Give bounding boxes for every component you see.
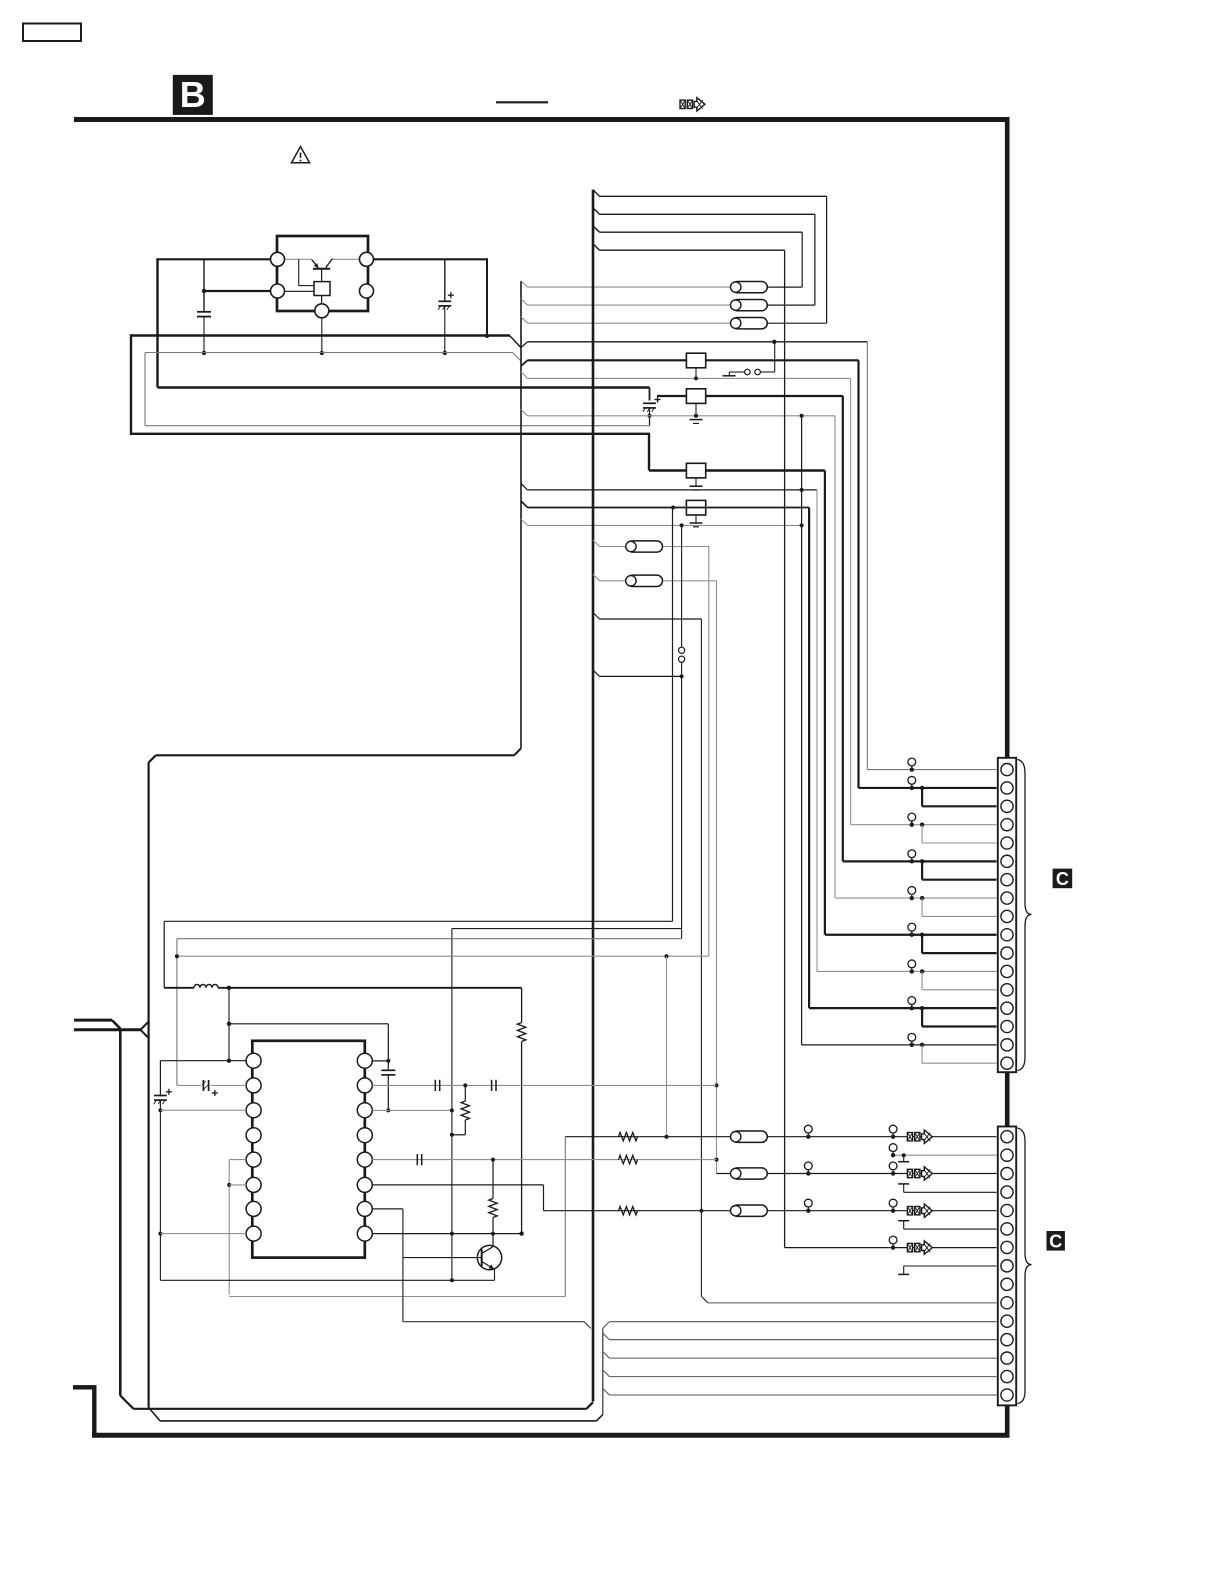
IC pin3L wire bbox=[160, 1109, 246, 1111]
IC pin3R wire bbox=[372, 1109, 452, 1111]
IC pin2L wire with series electrolytic bbox=[177, 1084, 201, 1086]
IC pin1R stub bbox=[372, 1060, 389, 1062]
step wire bbox=[921, 898, 923, 916]
svg-text:B: B bbox=[180, 74, 206, 115]
emitter return line y=1280.3 bbox=[160, 1279, 494, 1281]
filter box F2 on y=396 bbox=[686, 389, 705, 404]
connector P2 rows 10-15 bbox=[708, 1302, 997, 1304]
section label C (lower) bbox=[1047, 1231, 1065, 1251]
connector P1 pin 1 bbox=[1001, 764, 1013, 776]
inner rail left edge x=145 bbox=[144, 353, 146, 426]
wire: module right pin to right drop bbox=[374, 258, 488, 260]
IC U1 left pin 2 bbox=[246, 1078, 261, 1093]
filter box F1 on y=360.3 bbox=[686, 353, 705, 368]
branch tick row y=1376.6 bbox=[603, 1370, 610, 1377]
jumper link / connector pair at (752,372) bbox=[774, 342, 776, 372]
bus tick cyl5 bbox=[593, 574, 600, 581]
drop x=160.4 with electrolytic cap bbox=[159, 1061, 161, 1095]
connector P1 pin 8 bbox=[1001, 892, 1013, 904]
wire y=250.2 bbox=[600, 249, 785, 251]
IC U1 left pin 6 bbox=[246, 1177, 261, 1192]
return line y=928.6 bbox=[452, 928, 682, 930]
IC pin2R signal wire bbox=[372, 1084, 716, 1086]
drop x=521.6 with resistor bbox=[521, 988, 523, 1023]
board arrow (row5) bbox=[907, 1204, 932, 1217]
drop x=850.6 to connector row bbox=[850, 378, 852, 824]
connector P2 pin 2 bbox=[1001, 1149, 1013, 1161]
bus branch tick y=232.2 bbox=[593, 226, 600, 233]
connector P1 row pin 6 bbox=[843, 860, 997, 862]
connector P2 pin 13 bbox=[1001, 1352, 1013, 1364]
junction to jumper link bbox=[772, 340, 776, 344]
drop x=842.8 to connector row bbox=[842, 396, 844, 861]
connector P1 pin 14 bbox=[1001, 1002, 1013, 1014]
connector P1 pin 3 bbox=[1001, 800, 1013, 812]
main bus x=593 bbox=[592, 190, 595, 1402]
IC U1 left pin 1 bbox=[246, 1053, 261, 1068]
bus branch tick y=415.8 bbox=[521, 409, 528, 416]
drop x=716.5 bbox=[716, 581, 718, 1174]
IC pin5L wire bbox=[229, 1159, 246, 1161]
connector P1 pin 7 bbox=[1001, 874, 1013, 886]
drop x=465.3 with resistor bbox=[464, 1085, 466, 1101]
section label C (upper) bbox=[1053, 869, 1073, 889]
wire y=489.9 bbox=[528, 489, 818, 491]
inductor L1 bbox=[164, 987, 194, 989]
connector P2 pin 5 bbox=[1001, 1204, 1013, 1216]
page frame: bottom border bbox=[92, 1433, 1010, 1438]
IC U1 body bbox=[252, 1041, 364, 1258]
connector P2 row 4 bbox=[904, 1191, 997, 1193]
section label B bbox=[173, 75, 213, 115]
IC U1 left pin 3 bbox=[246, 1103, 261, 1118]
wire B from left edge bbox=[74, 1028, 141, 1031]
wire y=232.2 bbox=[600, 231, 803, 233]
connector P1 pin 6 bbox=[1001, 855, 1013, 867]
wire y=396 (thick) bbox=[657, 395, 843, 397]
wire y=525.4 bbox=[528, 524, 802, 526]
IC pin6R wire bbox=[372, 1184, 543, 1186]
module internal wiring bbox=[285, 258, 312, 260]
drop x=867.4 to connector row bbox=[866, 342, 868, 770]
connector P2 pin 3 bbox=[1001, 1168, 1013, 1180]
junction on pin8 wire bbox=[519, 1231, 523, 1235]
bus branch tick y=378.4 bbox=[521, 372, 528, 379]
test point bbox=[908, 776, 916, 790]
bus tick cyl4 bbox=[593, 540, 600, 547]
rail y=387.5 (thick) to drop x=649.5 bbox=[158, 386, 650, 388]
series cap bbox=[435, 1080, 439, 1091]
cylinder right wires and hook columns bbox=[768, 286, 802, 288]
IC pin5R signal wire bbox=[372, 1159, 716, 1161]
wire y=305.1 bbox=[528, 304, 733, 306]
transistor Q1 bbox=[477, 1245, 501, 1269]
drop x=681.6 with jumper pair bbox=[681, 525, 683, 647]
connector P1 pin 16 bbox=[1001, 1039, 1013, 1051]
connector P1 pin 5 bbox=[1001, 837, 1013, 849]
long drop x=784.6 to connector row bbox=[784, 250, 786, 1247]
board arrow (row3) bbox=[907, 1167, 932, 1180]
jumper cylinder (row3) bbox=[731, 1168, 768, 1179]
junction on rail bbox=[443, 351, 447, 355]
IC U1 left pin 5 bbox=[246, 1152, 261, 1167]
resistor R (row5) bbox=[619, 1207, 638, 1215]
page frame: top border bbox=[74, 117, 1010, 122]
rail y=352.5 chicane through bus to 360.3 bbox=[145, 352, 513, 354]
control block inside module bbox=[314, 282, 330, 296]
jumper cylinder JW2 bbox=[731, 299, 768, 310]
wire y=1023.8 bbox=[229, 1023, 388, 1025]
wire: left drop x=157.5 bbox=[156, 258, 158, 387]
merge into bus bbox=[584, 1322, 591, 1329]
connector P1 pin 9 bbox=[1001, 910, 1013, 922]
connector P1 row pin 4 bbox=[851, 824, 997, 826]
drop x=824.9 to connector row bbox=[824, 471, 826, 935]
svg-text:C: C bbox=[1049, 1231, 1062, 1251]
IC U1 left pin 8 bbox=[246, 1226, 261, 1241]
connector P1 pin 15 bbox=[1001, 1020, 1013, 1032]
connector P2 row 8 bbox=[904, 1265, 997, 1267]
brace for connector P1 bbox=[1018, 760, 1032, 1071]
wire: module lower-left pin bbox=[204, 290, 271, 292]
test point bbox=[908, 758, 916, 772]
bottom rail y=1408.8 bbox=[134, 1408, 587, 1410]
drop x=229 bbox=[228, 988, 230, 1061]
transistor collector line x=493 with resistor bbox=[492, 1160, 494, 1199]
junction bbox=[227, 986, 231, 990]
left trunk x=148.6 bbox=[148, 763, 150, 1408]
electrolytic cap on drop x=649.5 bbox=[655, 397, 661, 403]
branch tick row y=1358.1 bbox=[603, 1352, 610, 1359]
bus branch tick y=287.1 bbox=[521, 281, 528, 288]
resistor R (x=521.6) bbox=[517, 1023, 525, 1042]
test point bbox=[908, 960, 916, 974]
gray line y=956.2 bbox=[177, 955, 709, 957]
IC U1 right pin 3 bbox=[357, 1103, 372, 1118]
series cap bbox=[492, 1080, 496, 1091]
connector P1 pin 2 bbox=[1001, 782, 1013, 794]
IC pin8L wire bbox=[160, 1233, 246, 1235]
module bottom pin wire bbox=[321, 318, 323, 353]
rail y=433.8 (thick) jog down at x=649 bbox=[131, 433, 649, 435]
connector P2 row 7 bbox=[785, 1247, 997, 1249]
filter box F4 on y=507.5 bbox=[686, 500, 705, 515]
gray return y=1296.5 bbox=[229, 1296, 565, 1298]
wire: module left pin to left rail bbox=[158, 258, 271, 260]
wire y=360.3 (thick) bbox=[528, 359, 859, 361]
row to pin 16/17 from drop x=801.6 bbox=[801, 416, 803, 1045]
resistor R (x=465.3) bbox=[461, 1101, 469, 1120]
bus return rail y=755.3 bbox=[156, 754, 515, 756]
IC U1 left pin 7 bbox=[246, 1201, 261, 1216]
bottom rail y=1420.9 bbox=[160, 1420, 597, 1422]
series cap bbox=[417, 1154, 421, 1165]
connector P2 row 1 bbox=[565, 1136, 996, 1138]
connector P1 row pin 1 bbox=[867, 769, 996, 771]
electrolytic cap to gnd (right of module) bbox=[444, 259, 446, 301]
connector P2 pin 14 bbox=[1001, 1370, 1013, 1382]
IC pin6L wire bbox=[229, 1184, 246, 1186]
page frame: right border bbox=[1005, 117, 1010, 1435]
drop x=229.2 bbox=[228, 1160, 230, 1295]
wire A from left edge bbox=[74, 1019, 112, 1022]
transistor inside module bbox=[313, 268, 330, 270]
connector P2 pin 10 bbox=[1001, 1297, 1013, 1309]
wire y=214.3 bbox=[600, 213, 815, 215]
drop x=708.8 bbox=[708, 547, 710, 957]
wire y=415.8 bbox=[528, 415, 836, 417]
IC U1 right pin 4 bbox=[357, 1128, 372, 1143]
resistor R (row1) bbox=[619, 1133, 638, 1141]
resistor R (x=493) bbox=[489, 1199, 497, 1218]
connector P2 pin 7 bbox=[1001, 1241, 1013, 1253]
IC U1 right pin 1 bbox=[357, 1053, 372, 1068]
drop x=666.5 bbox=[666, 956, 668, 1136]
capacitor C (left of module) bbox=[203, 259, 205, 311]
IC U1 left pin 4 bbox=[246, 1128, 261, 1143]
connector P1 pin 13 bbox=[1001, 984, 1013, 996]
off-page arrow icon (top) bbox=[680, 98, 705, 111]
drop x=809.1 to connector row bbox=[808, 508, 810, 1009]
svg-text:C: C bbox=[1056, 869, 1069, 889]
jumper cylinder JW1 bbox=[731, 281, 768, 292]
bus branch tick y=507.5 bbox=[521, 501, 528, 508]
connector P2 pin 15 bbox=[1001, 1389, 1013, 1401]
bus tick y=619 bbox=[593, 613, 600, 620]
resistor R (pin5 row) bbox=[619, 1155, 638, 1163]
wire y=378.4 bbox=[528, 377, 851, 379]
bus tick y=676.4 bbox=[593, 670, 600, 677]
IC U1 right pin 8 bbox=[357, 1226, 372, 1241]
connector P1 pin 12 bbox=[1001, 965, 1013, 977]
bus branch tick y=214.3 bbox=[593, 208, 600, 215]
IC U1 right pin 7 bbox=[357, 1201, 372, 1216]
warning triangle bbox=[292, 147, 310, 163]
drop x=701.4 bbox=[700, 619, 702, 1296]
connector P2 pin 9 bbox=[1001, 1278, 1013, 1290]
filter box F3 on y=470.5 bbox=[686, 463, 705, 478]
test point bbox=[908, 813, 916, 827]
step wire bbox=[921, 788, 923, 806]
brace for connector P2 bbox=[1018, 1128, 1032, 1404]
connector P2 row 2 bbox=[893, 1154, 996, 1156]
connector P2 pin 6 bbox=[1001, 1223, 1013, 1235]
connector P1 row pin 12 bbox=[817, 970, 997, 972]
jumper cylinder JW5 bbox=[626, 575, 663, 586]
wire y=196.3 bbox=[600, 195, 827, 197]
capacitor plates bbox=[381, 1069, 395, 1071]
jumper cylinder (row1) bbox=[731, 1131, 768, 1142]
connector P1 pin 4 bbox=[1001, 819, 1013, 831]
wire y=507.5 bbox=[528, 507, 810, 509]
step wire bbox=[921, 861, 923, 879]
test point bbox=[908, 887, 916, 901]
bus branch tick y=525.4 bbox=[521, 519, 528, 526]
IC pin8R wire bbox=[372, 1233, 521, 1235]
return line y=921.3 bbox=[164, 920, 672, 922]
wire y=341.8 to column bbox=[528, 341, 868, 343]
branch tick row y=1395.0 bbox=[603, 1388, 610, 1395]
connector P1 row pin 2 bbox=[859, 787, 997, 789]
drop x=835.0 to connector row bbox=[834, 416, 836, 898]
connector P2 pin 4 bbox=[1001, 1186, 1013, 1198]
connector P1 row pin 10 bbox=[825, 934, 997, 936]
connector P1 pin 17 bbox=[1001, 1057, 1013, 1069]
label box top-left bbox=[23, 24, 81, 42]
return line y=938.7 bbox=[177, 938, 682, 940]
drop x=858.5 to connector row bbox=[857, 360, 859, 788]
test point bbox=[908, 850, 916, 864]
board arrow (row1) bbox=[907, 1130, 932, 1143]
connector P2 pin 12 bbox=[1001, 1334, 1013, 1346]
connector P2 pin 1 bbox=[1001, 1131, 1013, 1143]
IC U1 right pin 6 bbox=[357, 1177, 372, 1192]
step wire bbox=[921, 971, 923, 989]
connector P2 pin 8 bbox=[1001, 1260, 1013, 1272]
junction bbox=[202, 289, 206, 293]
connector P2 pin 11 bbox=[1001, 1315, 1013, 1327]
connector P2 row 5 bbox=[544, 1210, 997, 1212]
connector P2 row 6 bbox=[904, 1228, 997, 1230]
connector P1 pin 11 bbox=[1001, 947, 1013, 959]
jumper cylinder (row5) bbox=[731, 1205, 768, 1216]
left bus x=521 bbox=[520, 281, 522, 748]
IC pin1L wire bbox=[160, 1060, 246, 1062]
IC U1 right pin 5 bbox=[357, 1152, 372, 1167]
wire: right drop x=487 bbox=[486, 258, 488, 335]
junction on rail bbox=[202, 351, 206, 355]
module pins bbox=[271, 252, 285, 266]
outer rail box left edge bbox=[130, 334, 132, 435]
branch tick row y=1339.7 bbox=[603, 1333, 610, 1340]
test point bbox=[908, 923, 916, 937]
module box (power IC) bbox=[277, 236, 368, 311]
board arrow (row7) bbox=[907, 1241, 932, 1254]
connector P1 body bbox=[998, 758, 1016, 1072]
IC U1 right pin 2 bbox=[357, 1078, 372, 1093]
junction on rail bbox=[320, 351, 324, 355]
step wire bbox=[921, 1008, 923, 1026]
drop x=672.5 bbox=[672, 508, 674, 922]
wire y=323.2 bbox=[528, 322, 733, 324]
test point bbox=[908, 997, 916, 1011]
connector P2 row 3 bbox=[717, 1173, 997, 1175]
drop x=388.3 with series cap bbox=[387, 1024, 389, 1070]
page frame: bottom-left entry stub bbox=[73, 1385, 94, 1389]
reference line segment bbox=[496, 101, 548, 103]
step wire bbox=[921, 935, 923, 953]
wire y=287.1 bbox=[528, 286, 733, 288]
wire y=470.5 (thick) bbox=[649, 469, 825, 471]
bus branch tick y=250.2 bbox=[593, 244, 600, 251]
base wire bbox=[403, 1257, 482, 1259]
connector P1 row pin 8 bbox=[835, 897, 997, 899]
bus branch tick y=196.3 bbox=[593, 190, 600, 197]
jumper cylinder JW3 bbox=[731, 318, 768, 329]
jumper cylinder JW4 bbox=[626, 541, 663, 552]
branch bend to row 11 bbox=[603, 1322, 610, 1329]
connector P2 body bbox=[998, 1127, 1016, 1406]
IC pin7R wire bbox=[372, 1208, 403, 1210]
connector P1 row pin 14 bbox=[809, 1007, 996, 1009]
bus branch tick y=489.9 bbox=[521, 483, 528, 490]
bus branch tick y=323.2 bbox=[521, 317, 528, 324]
rail y=335.5 (thick) chicane through bus to 341.8 bbox=[131, 334, 510, 336]
connector P1 pin 10 bbox=[1001, 929, 1013, 941]
bus branch tick y=305.1 bbox=[521, 299, 528, 306]
rail y=425.7 bbox=[145, 425, 650, 427]
step wire bbox=[921, 825, 923, 843]
drop x=817.0 to connector row bbox=[816, 490, 818, 972]
emitter drop bbox=[494, 1269, 496, 1280]
